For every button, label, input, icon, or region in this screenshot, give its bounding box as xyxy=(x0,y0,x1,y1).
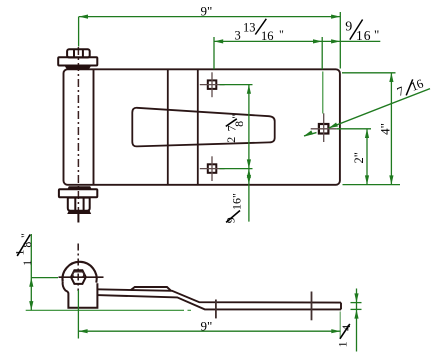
dim 3-13/16 extension xyxy=(213,37,215,69)
svg-text:16: 16 xyxy=(230,198,244,210)
dim line row y41.4 xyxy=(214,40,380,42)
strap top line xyxy=(97,289,341,302)
svg-text:9: 9 xyxy=(345,20,352,35)
dim 1/4 ticks xyxy=(351,302,362,304)
dim 2in connector xyxy=(337,128,372,130)
plate outline (top view) xyxy=(64,69,340,185)
leader 7/16 line xyxy=(329,89,430,128)
dim 3-13/16 text xyxy=(235,19,285,43)
dim 9in top extension right xyxy=(339,12,341,69)
strap ridge xyxy=(131,287,171,291)
bottom nut flare band xyxy=(67,211,91,215)
surface line xyxy=(26,309,184,311)
barrel seam line xyxy=(93,70,95,185)
svg-text:1: 1 xyxy=(20,260,34,266)
top washer xyxy=(58,57,97,65)
dim 4in top extension xyxy=(342,72,396,74)
strap bottom line xyxy=(97,295,341,309)
dim 1-1/8 text xyxy=(12,233,33,266)
dim 9/16 bottom arrows xyxy=(247,169,251,178)
leader arrowheads xyxy=(329,123,338,129)
leader 7/16 text xyxy=(395,76,425,99)
dim 9in bottom arrows xyxy=(78,329,87,333)
svg-text:": " xyxy=(374,27,379,42)
dim 9in top arrows xyxy=(79,15,88,19)
svg-text:9": 9" xyxy=(201,3,213,18)
dim 9/16 top text xyxy=(345,20,379,43)
pin tail bottom xyxy=(77,214,79,223)
dim 9in bottom ext right xyxy=(339,312,341,339)
dim 9in bottom line xyxy=(78,330,340,332)
dim 2-7/8 connector top xyxy=(220,84,253,86)
top collar (filled) xyxy=(65,66,92,70)
dim 1/4 line xyxy=(356,289,358,352)
bottom washer xyxy=(59,189,97,197)
dim 4in arrows xyxy=(389,73,393,82)
dim 2in arrows xyxy=(365,129,369,138)
svg-text:1: 1 xyxy=(336,341,350,347)
dim 9in bottom ext left xyxy=(77,290,79,339)
svg-text:": " xyxy=(229,114,243,119)
side view hex inner xyxy=(73,272,84,278)
dim 2-7/8 and 9/16 vertical line xyxy=(248,85,250,222)
fold line right xyxy=(197,70,199,185)
bottom hex nut xyxy=(68,198,90,211)
dim 9/16 arrow xyxy=(331,39,340,43)
dim 2in line xyxy=(366,129,368,185)
svg-text:9": 9" xyxy=(201,318,213,333)
top nut hex cap xyxy=(67,49,90,57)
svg-text:8: 8 xyxy=(232,121,246,127)
svg-text:": " xyxy=(230,193,244,198)
svg-text:2: 2 xyxy=(224,137,238,143)
dim 2-7/8 connector bottom xyxy=(220,168,253,170)
dim 1-1/8 connector xyxy=(31,277,58,279)
side view base xyxy=(63,282,98,308)
dim 9in top line xyxy=(79,16,341,18)
side view horizontal centerline xyxy=(59,276,104,278)
side view knuckle arc xyxy=(62,262,96,283)
dim 1-1/8 arrows xyxy=(29,278,33,287)
strap right end xyxy=(340,303,342,310)
svg-text:2": 2" xyxy=(352,152,366,163)
dim 1/4 text xyxy=(336,325,353,348)
pin centerline (top view) xyxy=(77,47,79,213)
dim 4in bottom extension xyxy=(343,184,401,186)
dim 2-7/8 text xyxy=(224,114,246,143)
dim 4in text xyxy=(378,123,393,135)
dim 2in text xyxy=(352,152,366,163)
side view hex nut xyxy=(71,270,86,284)
svg-text:13: 13 xyxy=(243,21,256,35)
svg-text:": " xyxy=(279,27,284,41)
dim 1-1/8 line xyxy=(30,234,32,310)
dim 9/16 inner extension to hole xyxy=(322,72,324,114)
tongue slot outline xyxy=(132,108,274,147)
fold line left xyxy=(167,70,169,185)
hole H2 square xyxy=(200,156,225,181)
side view vertical centerline xyxy=(77,244,79,292)
hole H3 square xyxy=(311,113,337,142)
svg-text:4": 4" xyxy=(378,123,393,135)
screw tick 2 xyxy=(311,292,313,321)
svg-text:16: 16 xyxy=(356,28,372,43)
svg-text:3: 3 xyxy=(235,29,241,43)
dim 1/4 arrows xyxy=(354,293,358,302)
screw tick 1 xyxy=(215,300,217,319)
dim 2-7/8 arrows xyxy=(247,85,251,94)
dim 9/16 top extension xyxy=(321,37,323,69)
bottom collar (filled) xyxy=(67,186,91,189)
dim 9/16 bottom text xyxy=(223,193,243,223)
dim 9in top extension left xyxy=(78,17,80,47)
svg-text:16: 16 xyxy=(261,29,274,43)
dim 4in line xyxy=(390,73,392,185)
hole H1 square xyxy=(200,72,225,97)
dim 3-13/16 arrows xyxy=(214,39,223,43)
